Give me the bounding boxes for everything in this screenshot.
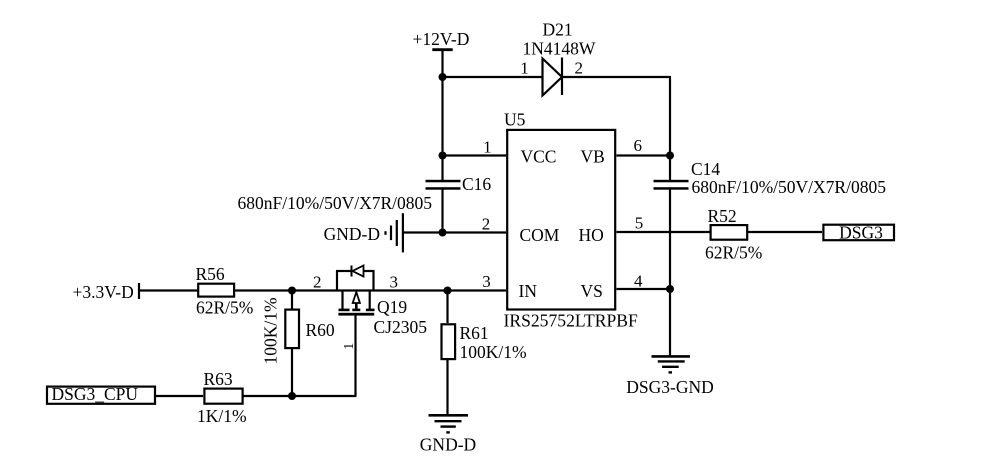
svg-text:+12V-D: +12V-D bbox=[413, 29, 470, 49]
svg-text:3: 3 bbox=[482, 272, 491, 291]
svg-text:1: 1 bbox=[483, 138, 492, 157]
svg-text:HO: HO bbox=[579, 225, 604, 245]
svg-text:680nF/10%/50V/X7R/0805: 680nF/10%/50V/X7R/0805 bbox=[692, 177, 887, 197]
svg-text:DSG3: DSG3 bbox=[839, 223, 883, 243]
svg-text:2: 2 bbox=[482, 215, 491, 234]
svg-text:62R/5%: 62R/5% bbox=[196, 298, 253, 318]
svg-text:4: 4 bbox=[634, 272, 643, 291]
svg-text:5: 5 bbox=[635, 214, 644, 233]
svg-text:1: 1 bbox=[342, 343, 357, 350]
svg-text:VS: VS bbox=[581, 281, 603, 301]
svg-text:2: 2 bbox=[574, 59, 583, 78]
svg-text:100K/1%: 100K/1% bbox=[261, 297, 281, 364]
svg-text:IRS25752LTRPBF: IRS25752LTRPBF bbox=[504, 310, 638, 330]
svg-text:R61: R61 bbox=[460, 323, 489, 343]
svg-text:680nF/10%/50V/X7R/0805: 680nF/10%/50V/X7R/0805 bbox=[238, 193, 433, 213]
svg-text:R52: R52 bbox=[708, 206, 737, 226]
svg-text:C16: C16 bbox=[462, 174, 491, 194]
svg-text:Q19: Q19 bbox=[377, 297, 407, 317]
svg-text:VB: VB bbox=[581, 147, 605, 167]
svg-text:IN: IN bbox=[519, 281, 538, 301]
svg-text:1N4148W: 1N4148W bbox=[523, 39, 596, 59]
svg-text:DSG3-GND: DSG3-GND bbox=[626, 377, 714, 397]
svg-text:VCC: VCC bbox=[521, 147, 557, 167]
svg-text:DSG3_CPU: DSG3_CPU bbox=[52, 384, 139, 404]
svg-text:D21: D21 bbox=[543, 20, 573, 40]
svg-text:GND-D: GND-D bbox=[324, 224, 380, 244]
svg-text:U5: U5 bbox=[504, 110, 526, 130]
svg-text:GND-D: GND-D bbox=[420, 435, 476, 455]
svg-text:C14: C14 bbox=[691, 159, 720, 179]
svg-text:COM: COM bbox=[520, 225, 560, 245]
svg-text:100K/1%: 100K/1% bbox=[460, 342, 527, 362]
svg-text:1: 1 bbox=[520, 59, 529, 78]
svg-text:1K/1%: 1K/1% bbox=[197, 406, 247, 426]
svg-text:6: 6 bbox=[634, 136, 643, 155]
svg-text:3: 3 bbox=[389, 273, 398, 292]
svg-text:62R/5%: 62R/5% bbox=[705, 243, 762, 263]
svg-text:R60: R60 bbox=[306, 320, 335, 340]
svg-text:CJ2305: CJ2305 bbox=[374, 317, 428, 337]
svg-text:R56: R56 bbox=[196, 264, 225, 284]
svg-text:R63: R63 bbox=[204, 369, 233, 389]
svg-text:2: 2 bbox=[313, 273, 322, 292]
svg-text:+3.3V-D: +3.3V-D bbox=[73, 282, 134, 302]
